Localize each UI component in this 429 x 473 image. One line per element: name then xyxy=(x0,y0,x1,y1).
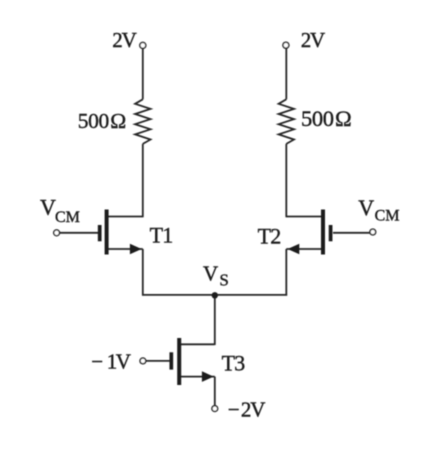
svg-text:T1: T1 xyxy=(150,223,173,248)
svg-text:2V: 2V xyxy=(112,28,136,52)
svg-text:T2: T2 xyxy=(258,223,281,248)
svg-text:V: V xyxy=(203,261,218,285)
svg-text:500 Ω: 500 Ω xyxy=(78,109,126,133)
svg-text:500 Ω: 500 Ω xyxy=(301,106,351,131)
svg-text:−: − xyxy=(228,397,240,421)
svg-text:V: V xyxy=(40,195,56,220)
svg-text:V: V xyxy=(358,195,374,220)
svg-text:T3: T3 xyxy=(222,350,246,375)
svg-text:2V: 2V xyxy=(301,28,325,52)
svg-text:CM: CM xyxy=(55,209,80,226)
svg-text:−: − xyxy=(91,349,103,373)
svg-text:1V: 1V xyxy=(107,349,131,373)
svg-text:2V: 2V xyxy=(241,397,265,421)
svg-text:S: S xyxy=(219,271,228,290)
svg-text:CM: CM xyxy=(375,208,400,225)
